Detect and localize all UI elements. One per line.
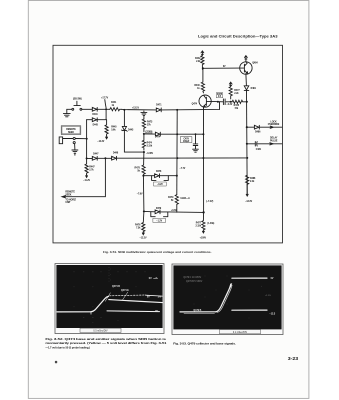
- right graticule dots: [194, 276, 262, 319]
- capacitor C479: [195, 133, 197, 135]
- transistor Q484: [240, 62, 252, 74]
- wire D471 to Q474: [161, 109, 203, 111]
- emitter wire: [245, 74, 248, 85]
- svg-text:D481: D481: [251, 87, 257, 90]
- svg-text:TO HORIZ: TO HORIZ: [65, 199, 76, 201]
- node D479: [143, 210, 145, 212]
- svg-text:2.15k: 2.15k: [147, 146, 153, 148]
- svg-text:(1.43k): (1.43k): [207, 222, 214, 225]
- svg-text:2%: 2%: [158, 296, 161, 298]
- diode D474: [144, 132, 204, 136]
- svg-text:−7.9V: −7.9V: [137, 193, 143, 195]
- svg-text:D486: D486: [255, 131, 261, 134]
- svg-text:−1.2V: −1.2V: [156, 221, 162, 223]
- svg-text:R440: R440: [194, 84, 200, 87]
- resistor R473: [142, 119, 145, 132]
- zener D443: [122, 110, 128, 131]
- left photo frame: [55, 264, 164, 334]
- ground (jack): [72, 144, 78, 156]
- svg-text:0V: 0V: [149, 278, 152, 280]
- svg-text:SEEK: SEEK: [65, 195, 71, 197]
- svg-text:R447: R447: [89, 165, 95, 168]
- wire to D471: [121, 108, 156, 111]
- svg-text:−12.2V: −12.2V: [97, 141, 105, 143]
- svg-text:D479: D479: [156, 207, 162, 210]
- REMOTE SEEK box: [61, 126, 81, 135]
- svg-text:0.1 mSec/DIV: 0.1 mSec/DIV: [233, 332, 248, 334]
- svg-text:D474: D474: [155, 136, 161, 139]
- svg-text:3-23: 3-23: [288, 356, 299, 361]
- svg-text:(−7.2V): (−7.2V): [206, 201, 213, 203]
- diode D445: [87, 109, 107, 121]
- svg-text:R442: R442: [195, 57, 201, 60]
- -11.2V arrow: [86, 175, 88, 178]
- svg-text:OVERRIDE: OVERRIDE: [268, 124, 280, 126]
- left trace upper: [110, 294, 146, 297]
- svg-text:+100V: +100V: [200, 238, 207, 240]
- svg-text:R488: R488: [250, 177, 256, 180]
- svg-text:−0.2V: −0.2V: [157, 184, 163, 186]
- svg-text:(SB SW): (SB SW): [73, 99, 82, 101]
- svg-text:R473: R473: [147, 121, 153, 124]
- svg-text:Q479 B: Q479 B: [193, 309, 201, 312]
- svg-text:−0.48V: −0.48V: [146, 152, 154, 155]
- svg-text:D443: D443: [128, 128, 134, 131]
- svg-text:0.5 mSec/DIV: 0.5 mSec/DIV: [93, 331, 108, 333]
- svg-text:−12.2V: −12.2V: [140, 238, 148, 240]
- diode D478: [143, 174, 176, 178]
- resistor R447: [85, 158, 88, 174]
- svg-text:5V: 5V: [147, 296, 150, 298]
- svg-text:—1.7 volt due to 50 Ω probe lo: —1.7 volt due to 50 Ω probe loading.): [45, 346, 90, 349]
- left trace main: [109, 300, 163, 303]
- resistor R474: [142, 134, 145, 150]
- svg-text:Fig. 3-51. SDB multivibrator q: Fig. 3-51. SDB multivibrator quiescent v…: [103, 250, 212, 254]
- svg-text:PULSE: PULSE: [270, 141, 278, 143]
- node y158: [246, 157, 248, 159]
- node +13.1V: [123, 109, 125, 111]
- +100V arrow: [202, 230, 204, 233]
- svg-text:Q484: Q484: [252, 62, 258, 65]
- svg-text:Q474 B: Q474 B: [112, 285, 120, 288]
- diode D441: [92, 107, 97, 111]
- bypass loop 1: [152, 176, 169, 181]
- svg-text:2%: 2%: [155, 311, 158, 313]
- svg-text:2.15k: 2.15k: [196, 226, 202, 228]
- svg-text:REMOTE: REMOTE: [66, 129, 76, 131]
- wire switch left: [67, 108, 72, 110]
- node C481: [246, 143, 248, 145]
- svg-text:0.933—A: 0.933—A: [180, 197, 190, 200]
- svg-text:R474: R474: [147, 142, 153, 145]
- node +17.7V: [105, 108, 107, 110]
- svg-text:LOCK: LOCK: [270, 121, 277, 123]
- diode D471: [156, 108, 161, 112]
- svg-text:−11.2V: −11.2V: [83, 180, 90, 182]
- node 0V: [202, 67, 204, 69]
- power arrow (Q484 collector): [245, 56, 248, 62]
- resistor R479: [175, 195, 178, 213]
- svg-text:100pF: 100pF: [183, 141, 190, 143]
- svg-text:D445: D445: [93, 124, 99, 127]
- leader lines: [105, 292, 128, 301]
- node seek bus: [86, 157, 88, 159]
- svg-text:R476: R476: [135, 224, 141, 227]
- node A: [176, 109, 178, 111]
- long wire y158: [87, 157, 248, 160]
- capacitor C481: [247, 142, 282, 146]
- node D486: [246, 126, 248, 128]
- wire remote seek out: [62, 158, 105, 198]
- diode D481: [244, 86, 249, 91]
- resistor R476: [142, 211, 145, 232]
- -12.2V arrow bottom: [142, 232, 144, 235]
- right ramp: [216, 284, 231, 312]
- node B: [176, 133, 178, 135]
- wire: [143, 152, 145, 165]
- power arrow (R477 top): [229, 82, 232, 87]
- svg-text:Q479 B 5 V/DIV: Q479 B 5 V/DIV: [186, 281, 203, 283]
- svg-text:Q479 C 10 V/DIV: Q479 C 10 V/DIV: [183, 277, 201, 279]
- transistor Q474: [199, 95, 211, 107]
- svg-text:R441: R441: [111, 101, 117, 104]
- resistor R478 (horizontal): [232, 100, 247, 103]
- svg-text:−12.3V: −12.3V: [245, 201, 253, 203]
- svg-text:D471: D471: [156, 104, 162, 107]
- left photo bottom strip label: [80, 328, 121, 332]
- diode D486: [247, 125, 282, 129]
- wire emitter row: [211, 100, 232, 102]
- svg-text:C479: C479: [183, 137, 189, 140]
- right photo frame: [172, 264, 283, 335]
- resistor R445: [105, 120, 108, 136]
- resistor R440: [201, 68, 204, 93]
- ground (R473 top): [141, 111, 147, 119]
- svg-text:D441: D441: [92, 113, 98, 116]
- -12.2V arrow: [106, 136, 108, 139]
- svg-text:R445: R445: [111, 126, 117, 129]
- right baseline: [180, 311, 216, 313]
- jack J441: [59, 137, 73, 144]
- wire jack bus: [86, 120, 88, 159]
- node bus R478: [246, 101, 248, 103]
- svg-text:DELAY: DELAY: [270, 137, 278, 140]
- diode D479: [144, 210, 204, 214]
- left trace baseline: [57, 311, 91, 313]
- svg-text:REMOTE: REMOTE: [65, 192, 75, 194]
- svg-text:D478: D478: [156, 170, 162, 173]
- resistor R475: [142, 165, 145, 176]
- svg-text:UNIT: UNIT: [65, 202, 71, 204]
- svg-text:Logic and Circuit Description—: Logic and Circuit Description—Type 3A3: [198, 34, 278, 38]
- diode D447: [92, 156, 97, 160]
- right baseline label line: [184, 313, 215, 315]
- svg-text:D447: D447: [93, 153, 99, 156]
- svg-text:R479: R479: [168, 196, 174, 199]
- svg-text:SEEK: SEEK: [68, 132, 74, 134]
- resistor R441: [110, 108, 122, 111]
- ground (switch): [63, 109, 70, 117]
- node C: [202, 133, 204, 135]
- svg-text:−12.3: −12.3: [269, 314, 276, 316]
- bus x246.8: [246, 90, 249, 194]
- resistor R477b: [202, 212, 205, 230]
- svg-text:R478: R478: [234, 104, 240, 107]
- left trace lower: [107, 310, 160, 313]
- svg-text:R477: R477: [234, 89, 240, 92]
- boxed label 0.5V: [146, 131, 152, 134]
- svg-text:D448: D448: [113, 151, 119, 154]
- wire D441 to node: [97, 108, 110, 110]
- wire zener to node: [124, 131, 143, 153]
- right top trace: [232, 277, 267, 279]
- capacitor C476: [223, 99, 225, 105]
- resistor R477: [229, 87, 232, 99]
- right photo black area: [173, 265, 281, 329]
- svg-text:−0.2V: −0.2V: [227, 104, 233, 106]
- -12.3V arrow: [246, 185, 248, 196]
- node remote drop: [104, 157, 106, 159]
- svg-text:R477: R477: [196, 222, 202, 225]
- vertical x203 (Q474 emitter): [203, 107, 205, 212]
- switch SB SW: [72, 108, 74, 110]
- node D478: [142, 175, 144, 177]
- boxed label D475: [216, 93, 223, 98]
- schematic frame: [53, 45, 283, 243]
- node -0.48V: [143, 151, 145, 153]
- svg-text:momentarily pressed. (Yellow —: momentarily pressed. (Yellow — 5 volt le…: [45, 342, 167, 345]
- wire base step: [204, 102, 220, 110]
- node emitter: [217, 101, 219, 103]
- svg-text:Q474 E: Q474 E: [121, 289, 129, 292]
- svg-text:C481: C481: [256, 148, 262, 151]
- right photo bottom strip label: [220, 330, 261, 334]
- left trace ramp: [91, 296, 109, 311]
- svg-text:Fig. 3-53. Q479 collector and: Fig. 3-53. Q479 collector and base signa…: [173, 342, 236, 345]
- svg-text:R475: R475: [135, 167, 141, 170]
- registered mark: [55, 361, 57, 363]
- left graticule dots: [74, 267, 146, 323]
- svg-text:−7.7V: −7.7V: [180, 168, 186, 170]
- node R478 left: [230, 101, 232, 103]
- wire: [142, 176, 145, 212]
- resistor R488: [246, 175, 249, 185]
- node D473: [143, 133, 145, 135]
- svg-text:Q474: Q474: [192, 102, 198, 105]
- power arrow (R442 top): [201, 51, 204, 56]
- right lower trace: [232, 309, 267, 311]
- bypass loop 2: [151, 212, 168, 217]
- left photo black area: [56, 265, 162, 328]
- wire to D441: [82, 108, 92, 110]
- resistor R442: [201, 55, 204, 69]
- wire base Q484: [203, 67, 240, 69]
- svg-text:Fig. 3-52. Q474 base and emitt: Fig. 3-52. Q474 base and emitter signals…: [45, 338, 167, 341]
- vertical x177: [176, 110, 178, 195]
- diode D448: [112, 156, 117, 160]
- svg-text:+5 1%: +5 1%: [265, 295, 271, 297]
- svg-text:0V: 0V: [271, 278, 274, 280]
